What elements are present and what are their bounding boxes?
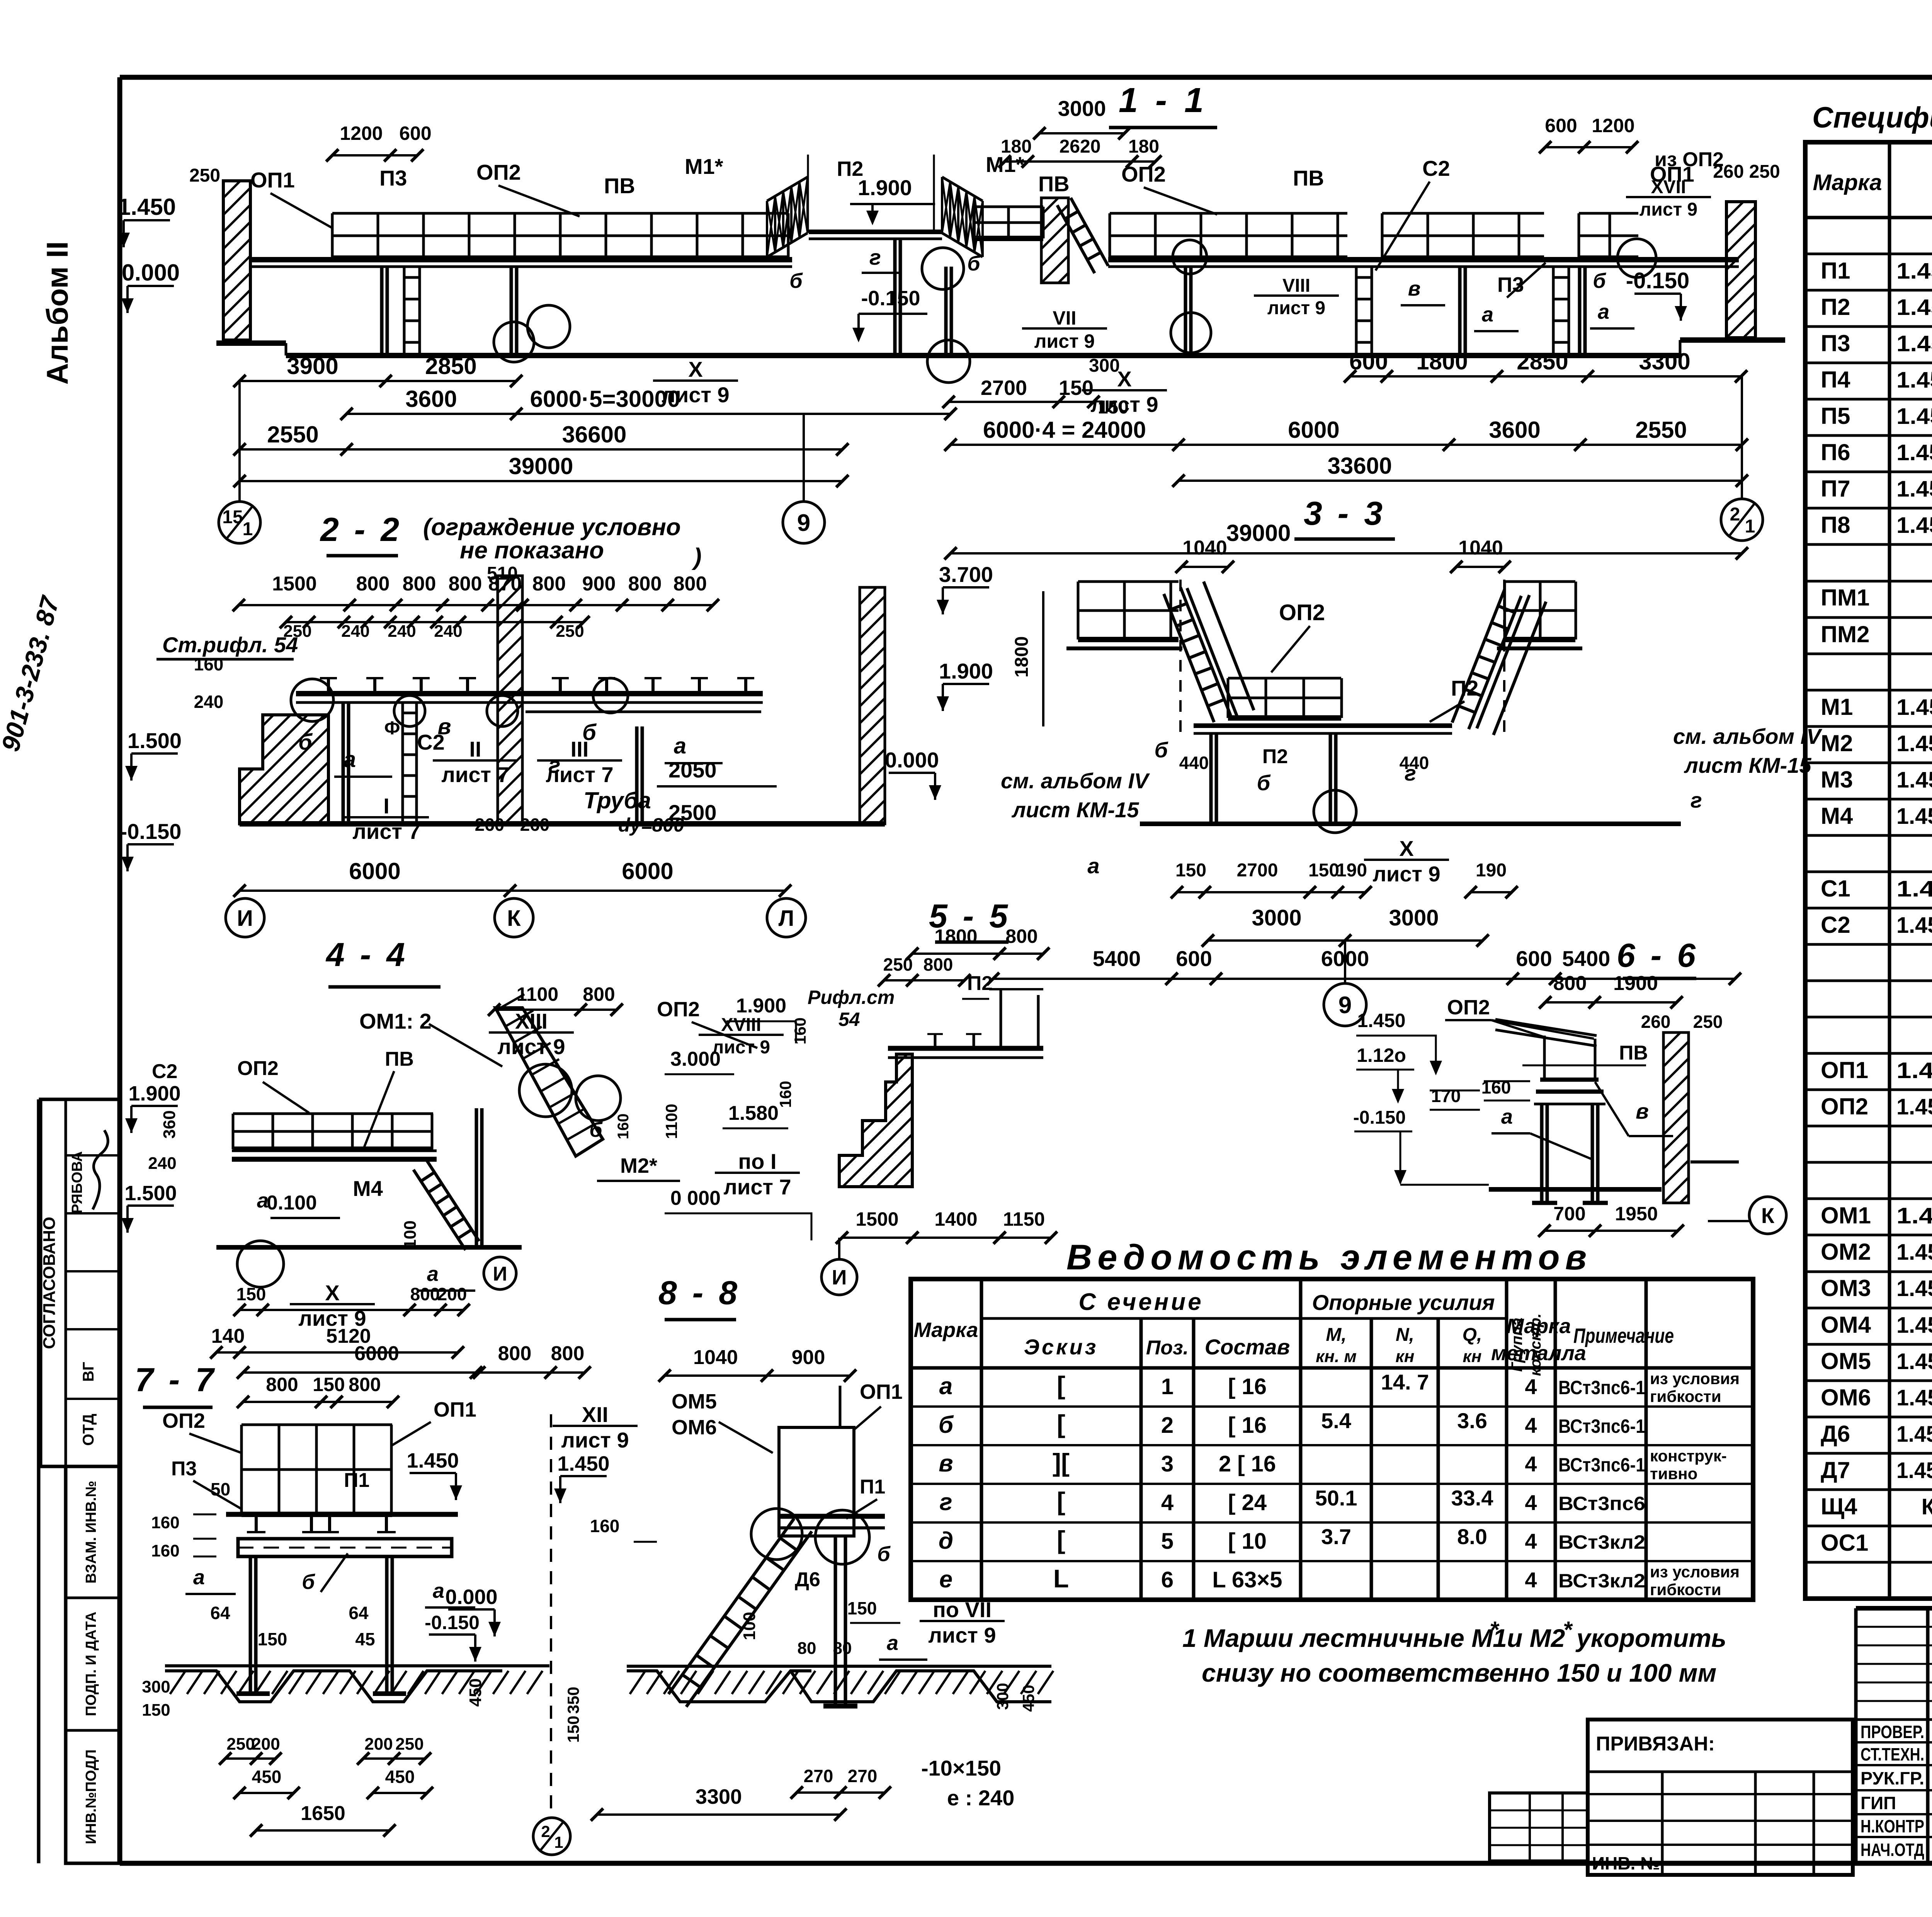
svg-text:кн: кн — [1396, 1347, 1415, 1366]
svg-text:ПОДП. И ДАТА: ПОДП. И ДАТА — [83, 1612, 99, 1716]
svg-text:4 - 4: 4 - 4 — [325, 936, 408, 973]
svg-text:900: 900 — [582, 573, 616, 595]
svg-text:снизу но соответственно 150: снизу но соответственно 150 и 100 мм — [1202, 1658, 1716, 1687]
svg-text:[: [ — [1057, 1371, 1065, 1400]
svg-text:150: 150 — [258, 1629, 287, 1649]
svg-text:Д7: Д7 — [1821, 1457, 1850, 1483]
svg-text:ОП2: ОП2 — [237, 1057, 279, 1080]
svg-text:3.6: 3.6 — [1457, 1408, 1487, 1433]
svg-text:и М2: и М2 — [1507, 1624, 1565, 1652]
svg-text:лист 9: лист 9 — [1267, 298, 1325, 318]
svg-text:ОП1: ОП1 — [1821, 1057, 1868, 1083]
svg-text:1 Марши лестничные М1: 1 Марши лестничные М1 — [1182, 1624, 1507, 1652]
svg-text:б: б — [1257, 771, 1271, 795]
svg-text:2850: 2850 — [1517, 349, 1568, 374]
svg-text:ХVIII: ХVIII — [721, 1015, 761, 1035]
svg-text:тивно: тивно — [1650, 1465, 1697, 1483]
svg-text:800: 800 — [923, 954, 953, 975]
svg-text:800: 800 — [583, 983, 615, 1005]
svg-text:100: 100 — [401, 1220, 420, 1249]
svg-text:1100: 1100 — [662, 1104, 680, 1139]
svg-text:150: 150 — [313, 1374, 345, 1395]
svg-text:ОМ3: ОМ3 — [1821, 1275, 1871, 1301]
svg-text:К: К — [507, 906, 521, 931]
svg-text:М3: М3 — [1821, 767, 1853, 793]
svg-text:39000: 39000 — [1226, 520, 1291, 546]
svg-text:е : 240: е : 240 — [947, 1786, 1014, 1810]
svg-text:1500: 1500 — [272, 573, 317, 595]
svg-text:260: 260 — [1641, 1012, 1671, 1032]
svg-text:2: 2 — [1161, 1413, 1173, 1438]
svg-text:Марка: Марка — [1813, 170, 1882, 195]
svg-text:1500: 1500 — [855, 1208, 898, 1230]
svg-text:Опорные усилия: Опорные усилия — [1312, 1290, 1495, 1315]
svg-text:160: 160 — [791, 1017, 809, 1044]
svg-text:7 - 7: 7 - 7 — [135, 1361, 217, 1398]
svg-text:1.450.3 - 3.1 3.1.0.10: 1.450.3 - 3.1 3.1.0.10 — [1896, 876, 1932, 902]
svg-text:2 [ 16: 2 [ 16 — [1219, 1451, 1276, 1476]
svg-text:50: 50 — [211, 1479, 230, 1499]
svg-text:160: 160 — [194, 654, 224, 674]
svg-text:б: б — [939, 1412, 954, 1438]
svg-text:б: б — [302, 1570, 315, 1594]
svg-text:г: г — [1690, 788, 1702, 812]
svg-text:КЖС.Ц.61.01.00 - 02: КЖС.Ц.61.01.00 - 02 — [1922, 1494, 1932, 1519]
svg-text:3900: 3900 — [287, 353, 338, 379]
svg-text:33600: 33600 — [1328, 453, 1392, 479]
svg-text:лист 9: лист 9 — [1372, 862, 1440, 886]
svg-text:150: 150 — [1098, 397, 1129, 418]
svg-text:450: 450 — [466, 1678, 485, 1706]
svg-text:1.580: 1.580 — [728, 1102, 779, 1124]
svg-text:*: * — [1563, 1617, 1573, 1643]
svg-text:М2*: М2* — [620, 1154, 657, 1177]
svg-text:-0.150: -0.150 — [1353, 1107, 1406, 1128]
svg-text:Спецификация к схемам распо: Спецификация к схемам расположения площа… — [1812, 101, 1932, 134]
svg-text:1.450.3 - 3.1 1.2.1.0.0 - 05: 1.450.3 - 3.1 1.2.1.0.0 - 05 — [1896, 804, 1932, 829]
svg-text:а: а — [1087, 854, 1099, 878]
svg-text:П2: П2 — [967, 972, 993, 995]
svg-text:г: г — [939, 1489, 952, 1516]
svg-text:а: а — [939, 1373, 952, 1400]
svg-text:СОГЛАСОВАНО: СОГЛАСОВАНО — [40, 1217, 59, 1349]
svg-text:5400: 5400 — [1562, 946, 1611, 971]
svg-text:П8: П8 — [1821, 512, 1850, 538]
svg-text:190: 190 — [1476, 860, 1507, 881]
svg-text:1900: 1900 — [1613, 972, 1658, 995]
svg-text:а: а — [887, 1631, 898, 1655]
svg-text:ПМ1: ПМ1 — [1821, 585, 1869, 611]
svg-text:ПВ: ПВ — [385, 1048, 414, 1070]
svg-text:150: 150 — [847, 1598, 877, 1618]
svg-text:Примечание: Примечание — [1573, 1324, 1674, 1347]
svg-text:кн: кн — [1463, 1347, 1482, 1366]
svg-text:ВСт3пс6-1: ВСт3пс6-1 — [1558, 1415, 1645, 1437]
svg-text:1650: 1650 — [301, 1802, 345, 1825]
svg-text:2620: 2620 — [1060, 136, 1101, 157]
svg-text:260: 260 — [475, 815, 505, 835]
svg-text:ПВ: ПВ — [604, 173, 635, 198]
svg-text:ОП2: ОП2 — [1279, 600, 1325, 625]
svg-text:240: 240 — [194, 692, 224, 712]
svg-text:[: [ — [1057, 1410, 1065, 1438]
svg-text:150: 150 — [236, 1284, 266, 1304]
svg-text:1.450.3 - 3.1 1.1.1.0.0 -07: 1.450.3 - 3.1 1.1.1.0.0 -07 — [1896, 767, 1932, 793]
svg-text:1.450.3-3.1 2.1.1.0.0-19: 1.450.3-3.1 2.1.1.0.0-19 — [1896, 295, 1932, 320]
svg-text:1.450: 1.450 — [118, 194, 176, 220]
svg-text:ПРИВЯЗАН:: ПРИВЯЗАН: — [1596, 1733, 1715, 1755]
svg-text:1.900: 1.900 — [736, 995, 786, 1017]
svg-text:14. 7: 14. 7 — [1381, 1370, 1429, 1394]
svg-text:укоротить: укоротить — [1575, 1624, 1726, 1652]
svg-text:1.450.3 - 3.1 3.1.0.1.0 - 01: 1.450.3 - 3.1 3.1.0.1.0 - 01 — [1896, 913, 1932, 938]
svg-text:Х: Х — [1399, 836, 1413, 861]
svg-text:из условия: из условия — [1650, 1369, 1740, 1388]
svg-text:в: в — [1408, 277, 1421, 300]
svg-text:3000: 3000 — [1252, 905, 1301, 930]
svg-text:1040: 1040 — [1458, 537, 1503, 559]
svg-text:И: И — [832, 1266, 847, 1289]
svg-text:1150: 1150 — [1003, 1208, 1045, 1230]
svg-text:300: 300 — [993, 1683, 1012, 1710]
svg-text:ОП2: ОП2 — [1821, 1094, 1868, 1119]
svg-text:Эскиз: Эскиз — [1024, 1335, 1099, 1359]
svg-text:800: 800 — [532, 573, 566, 595]
svg-text:VII: VII — [1053, 307, 1076, 329]
svg-text:8.0: 8.0 — [1457, 1524, 1487, 1549]
svg-text:600: 600 — [1349, 349, 1388, 374]
svg-text:ВСт3пс6-1: ВСт3пс6-1 — [1558, 1454, 1645, 1476]
svg-text:510: 510 — [487, 563, 518, 584]
svg-text:1.450.3-3.1 2.1.1.0.0- 25: 1.450.3-3.1 2.1.1.0.0- 25 — [1896, 367, 1932, 393]
svg-text:1.450.3-3.1 2.1.1.0.0 - 37: 1.450.3-3.1 2.1.1.0.0 - 37 — [1896, 513, 1932, 538]
svg-text:200: 200 — [252, 1735, 280, 1754]
svg-text:6: 6 — [1161, 1567, 1173, 1592]
svg-text:И: И — [493, 1263, 507, 1285]
svg-text:б: б — [298, 730, 313, 755]
svg-text:450: 450 — [385, 1767, 415, 1787]
svg-text:270: 270 — [848, 1766, 878, 1786]
svg-text:150: 150 — [1308, 860, 1339, 881]
svg-text:6000·4 = 24000: 6000·4 = 24000 — [983, 417, 1146, 443]
svg-text:-0.150: -0.150 — [861, 287, 920, 310]
svg-text:[: [ — [1057, 1487, 1065, 1516]
svg-text:9: 9 — [797, 510, 810, 536]
svg-text:П6: П6 — [1821, 439, 1850, 465]
svg-text:П1: П1 — [860, 1476, 885, 1498]
svg-text:ОС1: ОС1 — [1821, 1530, 1868, 1556]
svg-text:2050: 2050 — [668, 758, 717, 782]
svg-text:I: I — [383, 794, 389, 818]
svg-text:450: 450 — [252, 1767, 282, 1787]
svg-text:ОМ5: ОМ5 — [1821, 1348, 1871, 1374]
svg-text:НАЧ.ОТД: НАЧ.ОТД — [1861, 1840, 1924, 1860]
svg-text:2: 2 — [541, 1822, 550, 1840]
svg-text:а: а — [257, 1189, 269, 1212]
svg-text:0.000: 0.000 — [122, 260, 180, 286]
svg-text:800: 800 — [551, 1342, 585, 1365]
svg-text:1.450.3 - 3.1 . 7.1.0.0.2 - 03: 1.450.3 - 3.1 . 7.1.0.0.2 - 03 — [1896, 1458, 1932, 1483]
svg-text:1.12о: 1.12о — [1357, 1044, 1406, 1066]
svg-text:Ведомость элементов: Ведомость элементов — [1066, 1238, 1592, 1277]
svg-text:П3: П3 — [171, 1458, 197, 1480]
svg-text:VIII: VIII — [1282, 276, 1310, 296]
svg-text:160: 160 — [151, 1513, 179, 1532]
svg-text:ОМ6: ОМ6 — [1821, 1385, 1871, 1410]
svg-text:800: 800 — [628, 573, 662, 595]
svg-text:а: а — [1501, 1105, 1513, 1128]
svg-text:1.450.3-3.1 2.1.1.0.0-01: 1.450.3-3.1 2.1.1.0.0-01 — [1896, 259, 1932, 284]
svg-text:3.700: 3.700 — [939, 562, 993, 587]
svg-text:][: ][ — [1053, 1448, 1070, 1477]
svg-text:Труба: Труба — [583, 788, 651, 813]
svg-text:15: 15 — [222, 507, 243, 527]
svg-text:ОП1: ОП1 — [250, 168, 295, 192]
svg-text:1.450: 1.450 — [406, 1449, 459, 1472]
svg-text:б: б — [1155, 738, 1168, 762]
svg-text:6000: 6000 — [349, 858, 400, 884]
svg-text:1.450.3-3.1 2.1.1.0.0-22: 1.450.3-3.1 2.1.1.0.0-22 — [1896, 331, 1932, 356]
svg-text:ОМ1: 2: ОМ1: 2 — [359, 1009, 432, 1033]
svg-text:0.100: 0.100 — [267, 1192, 317, 1214]
svg-text:160: 160 — [776, 1081, 794, 1108]
svg-text:ОМ6: ОМ6 — [672, 1416, 717, 1439]
svg-text:РЯБОВА: РЯБОВА — [69, 1151, 85, 1214]
svg-text:Ст.рифл. 54: Ст.рифл. 54 — [162, 633, 298, 657]
svg-text:М2: М2 — [1821, 730, 1853, 756]
svg-text:800: 800 — [1005, 925, 1037, 947]
svg-text:ОП1: ОП1 — [434, 1398, 476, 1421]
svg-text:2500: 2500 — [668, 800, 717, 825]
svg-text:250: 250 — [226, 1735, 255, 1754]
svg-text:4: 4 — [1161, 1490, 1173, 1515]
svg-text:лист КМ-15: лист КМ-15 — [1684, 753, 1811, 777]
svg-text:б: б — [789, 269, 803, 293]
svg-text:лист 7: лист 7 — [441, 762, 509, 787]
svg-text:5400: 5400 — [1093, 946, 1141, 971]
svg-text:2550: 2550 — [1635, 417, 1687, 443]
svg-text:см. альбом IV: см. альбом IV — [1001, 769, 1150, 793]
svg-text:1 - 1: 1 - 1 — [1119, 81, 1207, 120]
svg-text:[ 24: [ 24 — [1228, 1490, 1267, 1515]
svg-text:1.450.3-3.1 2.1.1.0.0 - 31: 1.450.3-3.1 2.1.1.0.0 - 31 — [1896, 440, 1932, 465]
svg-text:50.1: 50.1 — [1315, 1486, 1357, 1510]
svg-text:-0.150: -0.150 — [120, 819, 182, 844]
svg-text:М1*: М1* — [685, 154, 723, 179]
svg-text:1.450.3 - 3.1 5.1.0.1.0 - 13: 1.450.3 - 3.1 5.1.0.1.0 - 13 — [1896, 1094, 1932, 1119]
svg-text:1.450.3 - 3.1 4.1.1.1.0 - 07: 1.450.3 - 3.1 4.1.1.1.0 - 07 — [1896, 1313, 1932, 1338]
svg-text:6000·5=30000: 6000·5=30000 — [530, 386, 680, 412]
svg-text:33.4: 33.4 — [1451, 1486, 1493, 1510]
svg-text:0.000: 0.000 — [885, 748, 939, 772]
svg-text:1: 1 — [554, 1833, 563, 1851]
svg-text:-10×150: -10×150 — [921, 1756, 1001, 1780]
svg-text:160: 160 — [615, 1114, 632, 1140]
svg-text:Q,: Q, — [1463, 1325, 1482, 1345]
svg-text:250: 250 — [883, 954, 913, 975]
svg-text:Щ4: Щ4 — [1821, 1493, 1857, 1519]
svg-text:150: 150 — [1175, 860, 1206, 881]
svg-text:б: б — [967, 252, 981, 275]
svg-text:4: 4 — [1525, 1490, 1537, 1515]
svg-text:600: 600 — [1176, 946, 1212, 971]
svg-text:е: е — [939, 1566, 952, 1593]
svg-text:С2: С2 — [1821, 912, 1850, 938]
svg-text:ПВ: ПВ — [1038, 172, 1070, 196]
svg-text:П1: П1 — [1821, 258, 1850, 284]
svg-text:2700: 2700 — [981, 376, 1027, 400]
svg-text:800: 800 — [403, 573, 436, 595]
svg-text:ОМ1: ОМ1 — [1821, 1203, 1871, 1228]
svg-text:100: 100 — [740, 1612, 759, 1640]
svg-text:6000: 6000 — [354, 1342, 399, 1365]
svg-text:П2: П2 — [1821, 294, 1850, 320]
svg-text:150: 150 — [142, 1701, 170, 1720]
svg-text:1: 1 — [1161, 1374, 1173, 1399]
svg-text:160: 160 — [151, 1541, 179, 1560]
svg-text:64: 64 — [210, 1603, 230, 1623]
svg-text:6000: 6000 — [1288, 417, 1339, 443]
svg-text:3: 3 — [1161, 1451, 1173, 1476]
svg-text:54: 54 — [838, 1009, 860, 1030]
svg-text:гибкости: гибкости — [1650, 1580, 1721, 1599]
svg-text:1800: 1800 — [1012, 636, 1032, 678]
svg-text:а: а — [427, 1262, 439, 1286]
svg-text:3.000: 3.000 — [670, 1048, 721, 1070]
svg-text:250: 250 — [1693, 1012, 1723, 1032]
svg-text:260: 260 — [520, 815, 550, 835]
svg-text:лист 9: лист 9 — [712, 1037, 770, 1058]
svg-text:1.450.3 - 3.1 4.1.1.1.0 - 0: 1.450.3 - 3.1 4.1.1.1.0 - 01 — [1896, 1276, 1932, 1301]
svg-text:ОМ5: ОМ5 — [672, 1390, 717, 1413]
svg-text:М4: М4 — [1821, 803, 1853, 829]
svg-text:РУК.ГР.: РУК.ГР. — [1861, 1768, 1924, 1788]
svg-text:240: 240 — [148, 1154, 176, 1173]
svg-text:800: 800 — [449, 573, 482, 595]
svg-text:4: 4 — [1525, 1374, 1537, 1399]
svg-text:М1: М1 — [1821, 694, 1853, 720]
svg-text:металла: металла — [1491, 1342, 1586, 1365]
svg-text:ХVII: ХVII — [1651, 177, 1686, 197]
svg-text:2: 2 — [1730, 504, 1740, 525]
svg-text:лист 7: лист 7 — [352, 819, 420, 844]
svg-text:а: а — [193, 1566, 205, 1589]
svg-text:9: 9 — [1338, 992, 1352, 1019]
svg-text:190: 190 — [1336, 860, 1367, 881]
svg-text:[ 16: [ 16 — [1228, 1413, 1267, 1438]
svg-text:ВГ: ВГ — [80, 1362, 97, 1382]
svg-text:Альбом II: Альбом II — [40, 241, 74, 384]
svg-text:К: К — [1761, 1203, 1775, 1228]
svg-text:-0.150: -0.150 — [1626, 268, 1689, 293]
svg-text:2 - 2: 2 - 2 — [320, 511, 402, 548]
svg-text:1040: 1040 — [693, 1346, 738, 1369]
svg-text:Н.КОНТР: Н.КОНТР — [1861, 1816, 1924, 1836]
svg-text:270: 270 — [804, 1766, 833, 1786]
svg-text:80: 80 — [833, 1639, 852, 1658]
svg-text:П2: П2 — [1451, 676, 1478, 700]
svg-text:а: а — [1482, 303, 1493, 326]
svg-text:в: в — [939, 1450, 953, 1477]
svg-text:б: б — [877, 1543, 891, 1566]
svg-text:1200: 1200 — [1592, 115, 1634, 136]
svg-text:Состав: Состав — [1205, 1335, 1290, 1359]
svg-text:800: 800 — [266, 1374, 298, 1395]
svg-text:Марка: Марка — [1507, 1315, 1571, 1338]
svg-text:3600: 3600 — [1489, 417, 1540, 443]
svg-text:240: 240 — [434, 622, 462, 641]
svg-text:М4: М4 — [353, 1176, 383, 1201]
svg-text:1.450.3 - 3.1 4.1.1.1.0 - 06: 1.450.3 - 3.1 4.1.1.1.0 - 06 — [1896, 1240, 1932, 1265]
svg-text:8 - 8: 8 - 8 — [658, 1274, 740, 1311]
svg-text:ОП2: ОП2 — [476, 160, 521, 184]
svg-text:ОТД: ОТД — [80, 1414, 97, 1446]
svg-text:3000: 3000 — [1058, 96, 1106, 121]
svg-text:ИНВ. №: ИНВ. № — [1592, 1853, 1660, 1873]
svg-text:М,: М, — [1326, 1325, 1346, 1345]
svg-text:4: 4 — [1525, 1529, 1537, 1553]
svg-text:600: 600 — [1516, 946, 1552, 971]
svg-text:1.900: 1.900 — [939, 659, 993, 683]
svg-text:а: а — [344, 747, 356, 772]
svg-text:440: 440 — [1400, 753, 1429, 773]
svg-text:конструк-: конструк- — [1650, 1447, 1727, 1465]
svg-text:2550: 2550 — [267, 422, 318, 447]
svg-text:лист 9: лист 9 — [1034, 330, 1095, 352]
svg-text:1400: 1400 — [934, 1208, 977, 1230]
svg-text:3 - 3: 3 - 3 — [1304, 495, 1386, 532]
svg-text:ГИП: ГИП — [1861, 1793, 1896, 1813]
svg-text:ОП2: ОП2 — [657, 998, 700, 1021]
svg-text:С ечение: С ечение — [1078, 1289, 1203, 1315]
svg-text:1.450.3 - 3.1 . 7.1.0.0.2 - 02: 1.450.3 - 3.1 . 7.1.0.0.2 - 02 — [1896, 1422, 1932, 1447]
svg-text:лист 9: лист 9 — [1639, 199, 1697, 220]
svg-text:д: д — [939, 1527, 953, 1554]
svg-text:1040: 1040 — [1182, 537, 1227, 559]
svg-text:5.4: 5.4 — [1321, 1408, 1351, 1433]
svg-text:64: 64 — [349, 1603, 369, 1623]
svg-text:300: 300 — [1089, 356, 1120, 376]
svg-text:1.450: 1.450 — [557, 1452, 609, 1475]
svg-text:П5: П5 — [1821, 403, 1850, 429]
svg-text:1800: 1800 — [1416, 349, 1468, 374]
svg-text:3300: 3300 — [1639, 349, 1690, 374]
svg-text:[ 16: [ 16 — [1228, 1374, 1267, 1399]
svg-text:260 250: 260 250 — [1713, 162, 1780, 182]
svg-text:140: 140 — [211, 1325, 245, 1347]
svg-text:3300: 3300 — [696, 1785, 742, 1808]
svg-text:П1: П1 — [344, 1469, 369, 1492]
svg-text:1.900: 1.900 — [858, 175, 912, 200]
svg-text:(ограждение условно: (ограждение условно — [423, 514, 681, 541]
svg-text:1.500: 1.500 — [124, 1182, 177, 1205]
svg-text:П3: П3 — [1821, 330, 1850, 356]
svg-text:150: 150 — [1059, 376, 1094, 400]
svg-text:N,: N, — [1396, 1325, 1414, 1345]
svg-text:см. альбом IV: см. альбом IV — [1673, 724, 1823, 748]
svg-text:2850: 2850 — [425, 353, 476, 379]
svg-text:-0.150: -0.150 — [425, 1612, 480, 1633]
svg-text:СТ.ТЕХН.: СТ.ТЕХН. — [1861, 1744, 1924, 1764]
svg-text:0.000: 0.000 — [445, 1585, 497, 1609]
svg-text:2700: 2700 — [1237, 860, 1278, 881]
svg-text:С2: С2 — [1422, 156, 1450, 180]
svg-text:360: 360 — [160, 1110, 179, 1138]
svg-text:Д6: Д6 — [795, 1568, 820, 1591]
svg-text:800: 800 — [349, 1374, 381, 1395]
svg-text:1.450.3 - 3.1 1.1.1.0.0-01: 1.450.3 - 3.1 1.1.1.0.0-01 — [1896, 695, 1932, 720]
svg-text:200: 200 — [437, 1284, 467, 1304]
